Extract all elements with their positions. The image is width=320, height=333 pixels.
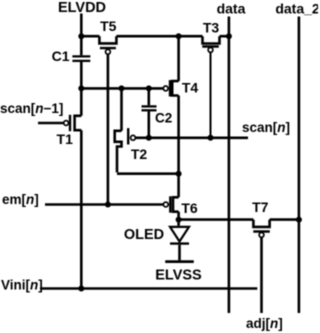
junction T7 / data_2 node: [296, 217, 302, 223]
wire T3 gate line down to scan[n]: [210, 52, 212, 138]
svg-text:C2: C2: [155, 111, 172, 126]
wire OLED node to T7: [179, 218, 254, 221]
wire ELVDD lead: [80, 14, 83, 37]
wire OLED anode lead: [177, 220, 180, 226]
capacitor C2: [142, 106, 173, 137]
transistor T3: [202, 20, 219, 53]
wire center column (T4 to T6): [177, 96, 180, 198]
wire top rail left (ELVDD node to T5): [81, 35, 99, 38]
svg-text:T7: T7: [252, 199, 269, 215]
svg-text:ELVSS: ELVSS: [155, 268, 202, 284]
junction ELVDD/C1 node: [78, 33, 84, 39]
junction T3 gate / scan[n] node: [208, 135, 214, 141]
junction T5 gate / em[n] node: [105, 202, 111, 208]
wire T5 gate line down to em[n]: [107, 54, 110, 204]
wire T7 right to data_2: [270, 218, 299, 221]
svg-text:data_2: data_2: [275, 1, 318, 17]
wire T2 source branch: [120, 88, 123, 130]
junction T3 / data: [226, 33, 232, 39]
transistor T2: [115, 128, 148, 172]
wire scan[n-1] gate lead: [38, 122, 64, 125]
svg-text:T2: T2: [131, 146, 148, 162]
junction C2 / scan[n] node: [146, 135, 152, 141]
wire center column (T3 node down to T4): [177, 36, 180, 81]
svg-text:OLED: OLED: [124, 227, 164, 243]
svg-text:T4: T4: [182, 80, 199, 96]
junction T1 / Vini node: [78, 286, 84, 292]
wire T7 gate line down to adj[n]: [260, 237, 263, 313]
transistor T6: [163, 196, 197, 216]
diode OLED: [124, 227, 189, 260]
svg-text:T6: T6: [181, 200, 198, 216]
transistor T7: [252, 199, 270, 237]
wire data vertical line: [228, 17, 231, 314]
junction C1 bottom node: [78, 85, 84, 91]
svg-text:scan[n−1]: scan[n−1]: [0, 101, 63, 116]
wire T2 drain to center column: [117, 172, 179, 175]
svg-text:T3: T3: [203, 20, 220, 36]
wire gate rail y=88 (C1 node to T4 gate): [81, 87, 163, 90]
transistor T4: [163, 80, 198, 97]
transistor T1: [57, 115, 82, 147]
wire T6 drain to OLED node: [177, 212, 180, 220]
svg-text:C1: C1: [52, 48, 70, 64]
junction T2 source node: [119, 85, 125, 91]
svg-text:adj[n]: adj[n]: [246, 316, 283, 331]
ground ELVSS terminal: [155, 262, 202, 284]
wire em[n] horizontal: [45, 203, 163, 206]
transistor T5: [99, 18, 116, 54]
svg-text:scan[n]: scan[n]: [242, 120, 290, 135]
svg-text:em[n]: em[n]: [2, 192, 39, 207]
junction T2 drain / center column: [176, 171, 182, 177]
capacitor C1: [52, 36, 91, 88]
svg-text:Vini[n]: Vini[n]: [1, 277, 43, 292]
svg-text:T5: T5: [100, 18, 117, 34]
junction top rail / center column: [176, 33, 182, 39]
wire top rail right (T3 to data line): [220, 35, 229, 38]
junction OLED anode node: [176, 217, 182, 223]
wire scan[n] horizontal: [135, 137, 248, 140]
wire C2 branch top: [148, 88, 151, 105]
wire Vini[n] horizontal: [40, 287, 257, 290]
junction C2 top node: [146, 85, 152, 91]
wire left column (C1 node through T1 down to Vini): [80, 88, 83, 288]
wire top rail middle (T5 to T3): [116, 35, 202, 38]
svg-text:data: data: [217, 1, 246, 17]
svg-text:T1: T1: [57, 131, 74, 147]
wire data_2 vertical line: [298, 17, 301, 314]
